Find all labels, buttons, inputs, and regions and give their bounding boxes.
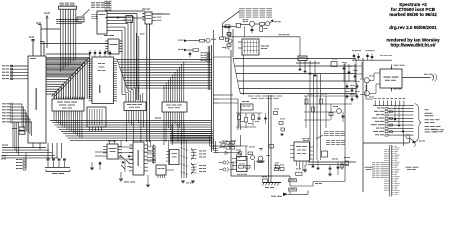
svg-text:marked 86/30 to 86/42: marked 86/30 to 86/42 xyxy=(389,12,437,17)
svg-text:http://www.8bit.ht.st/: http://www.8bit.ht.st/ xyxy=(391,43,437,48)
svg-text:drg.rev 2.0 05/09/2001: drg.rev 2.0 05/09/2001 xyxy=(389,25,437,30)
